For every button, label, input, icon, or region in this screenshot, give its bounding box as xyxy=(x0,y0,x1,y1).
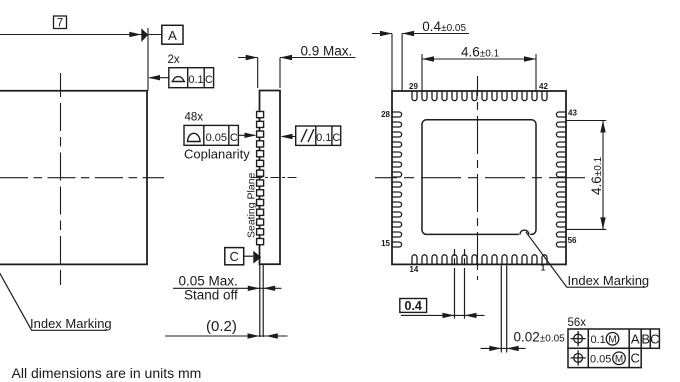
dimension 0.4pm0.05 line and arrows xyxy=(372,31,469,36)
svg-text:(0.2): (0.2) xyxy=(206,318,237,335)
datum C stem xyxy=(244,255,254,257)
package body bottom view xyxy=(392,91,566,264)
svg-text:Index Marking: Index Marking xyxy=(30,316,112,331)
svg-text:0.9 Max.: 0.9 Max. xyxy=(301,44,353,59)
fcf parallelism arrow xyxy=(281,134,296,139)
svg-text:0.1: 0.1 xyxy=(316,132,331,144)
side view body xyxy=(260,91,281,265)
fcf position row 1 text xyxy=(591,331,660,346)
svg-text:Coplanarity: Coplanarity xyxy=(184,147,250,162)
svg-text:0.05 Max.: 0.05 Max. xyxy=(179,274,238,289)
datum A triangle xyxy=(141,28,148,42)
svg-text:Stand off: Stand off xyxy=(184,288,238,303)
svg-text:0.05: 0.05 xyxy=(590,353,611,365)
svg-text:0.1: 0.1 xyxy=(591,334,606,346)
index marking leader top view xyxy=(0,270,107,330)
svg-text:56: 56 xyxy=(568,236,577,245)
index marking leader bottom view xyxy=(526,232,645,287)
pad width extension lines xyxy=(501,266,506,353)
svg-text:Seating Plane: Seating Plane xyxy=(246,172,258,238)
fcf parallelism frame xyxy=(296,126,341,145)
svg-text:14: 14 xyxy=(409,265,418,274)
fcf position row 1 frame xyxy=(568,329,659,348)
svg-text:C: C xyxy=(230,132,238,144)
fcf coplanarity frame xyxy=(184,125,238,145)
dimension 0.4pm0.05 extension lines xyxy=(392,34,402,92)
index marking notch xyxy=(519,233,530,236)
horizontal centerline top view xyxy=(0,177,164,179)
vertical centerline top view xyxy=(60,73,62,285)
dimension 0.9 max line and arrows xyxy=(238,55,356,60)
standoff dimension line xyxy=(173,286,282,291)
svg-text:7: 7 xyxy=(57,18,63,30)
svg-text:All dimensions are in units mm: All dimensions are in units mm xyxy=(12,365,202,381)
datum C box xyxy=(225,248,244,265)
svg-text:C: C xyxy=(650,331,659,346)
dimension 0.4 box xyxy=(400,299,427,314)
exposed pad xyxy=(422,120,536,235)
fcf profile 2x frame xyxy=(169,68,214,88)
svg-text:42: 42 xyxy=(539,82,548,91)
svg-text:A: A xyxy=(168,28,177,43)
svg-text:2x: 2x xyxy=(168,54,180,66)
pad pitch centerlines xyxy=(455,249,465,266)
dimension 4.6 horizontal extension lines xyxy=(422,54,536,90)
svg-text:M: M xyxy=(608,334,616,345)
svg-text:C: C xyxy=(332,132,340,144)
svg-text:M: M xyxy=(615,354,623,365)
side view centerline xyxy=(254,177,299,179)
fcf coplanarity arrow xyxy=(238,133,256,138)
dimension 7 arrowhead xyxy=(129,32,141,37)
dimension 0.02pm0.05 line and arrows xyxy=(481,346,526,351)
left pads pins 28-15 xyxy=(392,112,402,247)
dimension 0.4 line and arrows xyxy=(401,313,485,318)
svg-text:A: A xyxy=(631,331,640,346)
svg-text:15: 15 xyxy=(381,239,390,248)
svg-text:C: C xyxy=(631,351,640,366)
dimension 0.2 line xyxy=(165,333,288,338)
top pads pins 29-42 xyxy=(412,91,547,101)
vertical centerline bottom view xyxy=(477,76,479,280)
right pads pins 43-56 xyxy=(556,112,566,247)
svg-text:B: B xyxy=(641,331,650,346)
svg-text:28: 28 xyxy=(381,110,390,119)
svg-text:C: C xyxy=(230,249,239,264)
bottom pads pins 14-1 xyxy=(412,255,547,265)
fcf profile 2x arrow xyxy=(148,75,169,80)
dimension 4.6 vertical line and arrows xyxy=(600,121,605,230)
svg-text:29: 29 xyxy=(409,82,418,91)
horizontal centerline bottom view xyxy=(375,177,585,179)
fcf position row 2 frame xyxy=(568,348,641,367)
boxed label 7 xyxy=(54,16,67,30)
svg-text:1: 1 xyxy=(541,263,546,272)
side view leads xyxy=(257,112,264,245)
fcf position row 2 text xyxy=(590,351,640,366)
svg-text:0.4: 0.4 xyxy=(405,299,422,313)
package body top view xyxy=(0,91,147,265)
datum A extension line xyxy=(147,28,149,91)
datum A box xyxy=(162,25,183,44)
dimension 4.6 vertical extension lines xyxy=(566,121,606,230)
svg-text:C: C xyxy=(205,74,213,86)
svg-text:Index Marking: Index Marking xyxy=(568,273,650,288)
fcf position row 1 symbol xyxy=(571,331,586,346)
dimension 0.9 max extension lines xyxy=(258,58,280,89)
svg-text:0.1: 0.1 xyxy=(188,74,203,86)
svg-text:48x: 48x xyxy=(185,112,204,124)
datum C triangle xyxy=(253,251,261,264)
dimension 4.6 horizontal line and arrows xyxy=(422,56,536,61)
seating plane extension lines xyxy=(260,264,263,337)
fcf position row 2 symbol xyxy=(571,350,586,365)
svg-text:56x: 56x xyxy=(568,317,587,329)
dimension 7 leader line xyxy=(0,34,162,36)
svg-text:0.05: 0.05 xyxy=(206,132,227,144)
svg-text:43: 43 xyxy=(568,109,577,118)
